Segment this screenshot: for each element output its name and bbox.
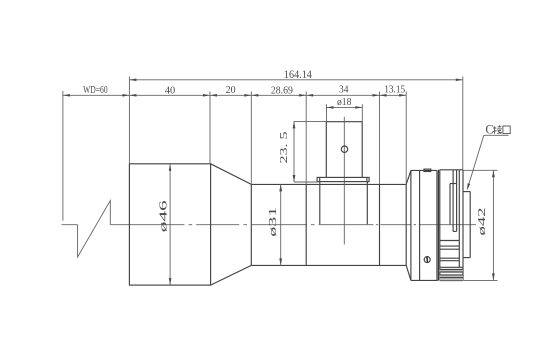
knurl stripe gray band 1 [440, 270, 463, 272]
rear ring top edge [411, 169, 437, 171]
rear ring inner line [419, 170, 421, 280]
tube set screw hole circle [341, 146, 347, 152]
knurl stripes lower [440, 266, 463, 268]
dimension line row WD=60 / 40 / 20 / 28.69 / 34 / 13.15 [63, 94, 406, 96]
phi42 bottom extension line [464, 279, 498, 281]
set screw slot [426, 256, 429, 262]
C-mount leader diagonal [467, 135, 484, 189]
svg-text:WD=60: WD=60 [83, 84, 108, 96]
taper cone bottom edge [211, 265, 252, 285]
extension line at 406.2 [405, 92, 407, 185]
extension line right (rear shoulder) [462, 77, 464, 170]
23.5 bottom extension line [294, 181, 318, 183]
knurl section bottom edge [440, 280, 463, 282]
phi31 barrel left junction line [250, 184, 252, 265]
svg-text:ø46: ø46 [159, 200, 170, 232]
phi31 barrel top edge [251, 183, 406, 185]
tube bore right line inside barrel [366, 182, 368, 225]
knurl inner vertical line left [449, 184, 451, 225]
knurl section left edge [439, 170, 441, 281]
svg-text:20: 20 [226, 84, 236, 96]
knurl slot bottom cap [453, 230, 457, 232]
knurl section right edge [462, 170, 464, 281]
phi18 extension line right [361, 104, 363, 122]
barrel divider line 2 [379, 184, 381, 265]
C-mount flange top edge [463, 191, 470, 193]
phi31 barrel bottom edge [251, 264, 406, 266]
vertical tube centerline [343, 117, 345, 245]
tube plate right end cap [366, 177, 368, 181]
phi42 dimension line [492, 170, 494, 280]
extension line at 306.2 [305, 92, 307, 185]
tube bore left line inside barrel [319, 182, 321, 225]
svg-text:ø18: ø18 [337, 96, 352, 108]
C-mount flange bottom edge [463, 257, 470, 259]
set screw circle [424, 257, 430, 263]
tube mounting plate [317, 177, 369, 181]
23.5 top extension line [294, 120, 326, 122]
extension line at 379.5 [379, 92, 381, 185]
rear ring left edge [410, 170, 412, 280]
C-mount flange right edge [469, 192, 471, 258]
groove dark line 1 [436, 170, 438, 280]
knurl section top edge [440, 169, 463, 171]
front barrel phi46 rectangle [129, 164, 210, 285]
svg-text:23. 5: 23. 5 [279, 132, 290, 164]
svg-text:34: 34 [339, 84, 349, 96]
centerline (dash-dot optical axis) [110, 224, 184, 226]
knurl inner vertical line right [458, 170, 460, 267]
svg-text:40: 40 [165, 84, 176, 96]
knurl slot inner tick [450, 183, 457, 185]
svg-text:28.69: 28.69 [271, 84, 293, 96]
phi46 dimension line [169, 164, 171, 285]
knurl stripe gray band 2 [440, 275, 463, 280]
groove dark line 2 [438, 170, 440, 281]
C-mount leader underline [484, 134, 509, 136]
knurl stripes upper [440, 240, 460, 242]
tube plate left end cap [319, 177, 321, 181]
svg-text:13.15: 13.15 [384, 84, 405, 96]
knurl slot right [456, 170, 458, 232]
svg-text:C: C [485, 123, 493, 137]
rear ring rib mark on top [424, 169, 431, 171]
extension line left (front face) [128, 77, 130, 164]
svg-text:ø31: ø31 [268, 207, 279, 237]
extension line at 251.3 [250, 92, 252, 185]
taper cone top edge [211, 164, 252, 185]
svg-text:ø42: ø42 [477, 208, 488, 236]
23.5 dimension line [293, 121, 295, 182]
phi18 dimension line [327, 106, 363, 108]
rear transition cone bottom [406, 265, 411, 280]
svg-text:164.14: 164.14 [284, 69, 312, 81]
phi18 extension line left [326, 104, 328, 122]
rear transition cone top [406, 170, 411, 184]
phi42 top extension line [463, 169, 498, 171]
centerline left stub [62, 224, 78, 226]
knurl slot left [452, 170, 454, 232]
vertical tube phi18 left side [325, 122, 327, 178]
object plane line (left vertical) [62, 91, 64, 221]
dimension line 164.14 [129, 79, 462, 81]
phi31 dimension line [280, 184, 282, 265]
extension line at 210 (phi46 rear face) [209, 92, 211, 164]
vertical tube phi18 right side [361, 122, 363, 178]
break zigzag symbol [78, 201, 111, 258]
barrel divider line 3 (rear) [405, 184, 407, 265]
rear ring bottom edge [411, 279, 438, 281]
barrel divider line 1 [305, 184, 307, 265]
row2 arrowheads [63, 94, 70, 97]
vertical tube top edge [326, 121, 362, 123]
